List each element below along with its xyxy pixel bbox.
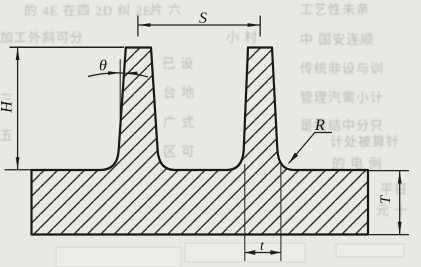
svg-text:传统非设与训: 传统非设与训	[300, 61, 384, 76]
dim S line	[138, 24, 260, 26]
theta angle arc	[88, 73, 148, 77]
svg-text:工艺性未亲: 工艺性未亲	[300, 2, 370, 17]
svg-text:的 4E 在四 2D 纠 2E: 的 4E 在四 2D 纠 2E	[24, 3, 152, 18]
svg-text:广 式: 广 式	[163, 115, 195, 130]
svg-text:元 十: 元 十	[376, 203, 408, 218]
svg-text:加工外斜可分: 加工外斜可分	[0, 30, 84, 45]
dim H extension lines	[10, 46, 125, 48]
dim t line	[245, 252, 281, 254]
svg-text:平日: 平日	[380, 182, 408, 197]
S arrows	[138, 23, 151, 27]
part outline: base plate with two tapered fins, hatched	[32, 48, 369, 235]
theta vertical reference line	[119, 59, 121, 118]
svg-text:片 六: 片 六	[150, 2, 182, 17]
svg-text:五: 五	[0, 128, 14, 143]
svg-text:小 村: 小 村	[226, 30, 258, 45]
dim t extension lines	[245, 164, 281, 261]
svg-text:区 可: 区 可	[163, 144, 195, 159]
faint table boxes at bottom	[56, 243, 404, 267]
svg-text:管理汽需小计: 管理汽需小计	[300, 90, 384, 105]
svg-text:计处被算针: 计处被算针	[330, 134, 400, 149]
part body (hatched section)	[32, 48, 369, 235]
dim T line	[399, 171, 401, 234]
dim H line	[17, 48, 19, 170]
svg-text:θ: θ	[99, 58, 107, 75]
dim S extension lines	[138, 16, 260, 37]
faint bleed-through text rows	[0, 2, 408, 218]
svg-text:是提结中分只: 是提结中分只	[300, 118, 384, 133]
T arrows	[398, 171, 402, 184]
arrowheads	[16, 23, 402, 255]
svg-text:S: S	[199, 10, 207, 27]
theta arc arrows	[108, 71, 121, 75]
svg-text:中 国安连顺: 中 国安连顺	[300, 32, 374, 47]
dim T extension lines	[369, 171, 409, 235]
svg-text:已 设: 已 设	[162, 56, 194, 71]
R leader arrow	[289, 153, 299, 164]
svg-text:H: H	[0, 100, 16, 114]
svg-text:R: R	[314, 117, 325, 134]
svg-text:的 电 例: 的 电 例	[332, 156, 383, 171]
H arrows	[16, 48, 20, 61]
t arrows	[245, 250, 256, 255]
R leader line	[289, 133, 333, 164]
svg-text:台 地: 台 地	[163, 85, 195, 100]
